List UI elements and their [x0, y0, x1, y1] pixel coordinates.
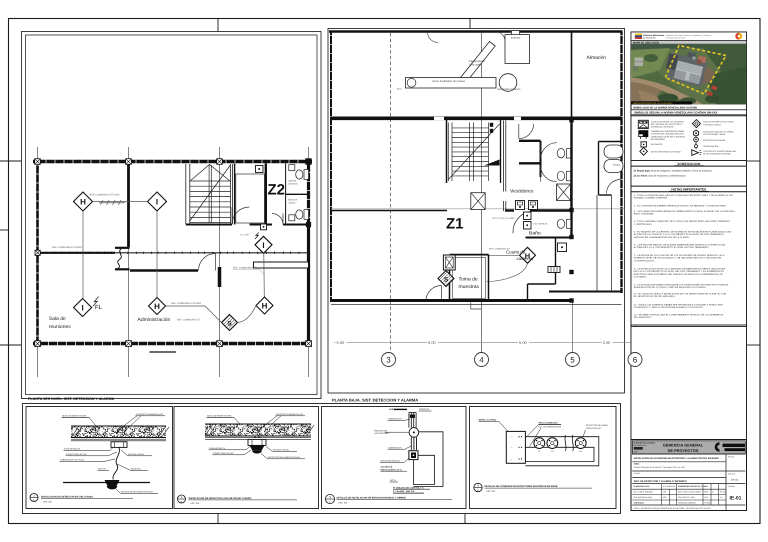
stairs mid diagonal: [448, 124, 499, 180]
svg-text:F1: F1: [538, 450, 540, 453]
svg-text:SIST. DE DETECCION Y ALARMA C/: SIST. DE DETECCION Y ALARMA C/ INCENDIO: [634, 480, 687, 483]
svg-text:LA ZONIFICACION.: LA ZONIFICACION.: [634, 259, 655, 262]
svg-text:MPPI: MPPI: [634, 451, 639, 454]
title block frame: [631, 440, 747, 511]
svg-text:DETECTOR DE HUMO: DETECTOR DE HUMO: [586, 424, 608, 427]
sym station label: [703, 130, 734, 136]
svg-text:damas: damas: [289, 201, 297, 204]
svg-text:LAMPARA DE EMERGENCIA PARA: LAMPARA DE EMERGENCIA PARA: [651, 130, 685, 133]
svg-text:Baño: Baño: [529, 231, 541, 237]
bano door arc: [513, 212, 530, 234]
svg-text:NOMBRE DEL PROYECTO / PLANO: NOMBRE DEL PROYECTO / PLANO: [678, 485, 708, 488]
svg-text:ESCALA:: ESCALA:: [728, 473, 736, 476]
shed: [633, 58, 643, 72]
grid bubble 3: [382, 353, 396, 367]
viewport inner frame: [26, 35, 318, 395]
svg-text:H: H: [154, 302, 160, 311]
column D bottom: [306, 341, 312, 347]
grid horizontal grey: [331, 208, 625, 210]
fold tick top left: [217, 18, 219, 32]
door jamb upper: [115, 247, 130, 249]
empty box: [631, 327, 747, 440]
svg-text:ALTURA DE 1.10 m CON RESPECTO: ALTURA DE 1.10 m CON RESPECTO AL NIVEL D…: [634, 246, 710, 249]
fold tick bottom right: [464, 514, 466, 524]
svg-text:11.- TODAS LAS TUBERIAS DEB: 11.- TODAS LAS TUBERIAS DEBEN SER PROTEG…: [634, 303, 724, 306]
d1 slab stipple: [71, 426, 166, 438]
svg-text:I: I: [156, 198, 158, 207]
svg-text:muestras: muestras: [459, 284, 480, 290]
bushes: [658, 94, 678, 103]
grid ext line 5: [572, 300, 574, 352]
row 4: [632, 477, 726, 479]
svg-text:Sala de: Sala de: [49, 316, 66, 322]
column B bottom: [126, 341, 132, 347]
svg-text:ESTACION MANUAL: ESTACION MANUAL: [381, 460, 402, 463]
svg-text:ALTURA DE LA PLACA DE 1.70: ALTURA DE LA PLACA DE 1.70 m CON RESPECT…: [634, 233, 725, 236]
svg-text:H: H: [262, 302, 268, 311]
grey map bar: [631, 41, 747, 45]
row 1: [632, 453, 745, 455]
wall gap door2: [514, 117, 521, 120]
dirt patch right: [692, 66, 714, 83]
svg-text:FOTOELECTRICO: FOTOELECTRICO: [703, 123, 721, 126]
svg-text:INSTALACION DE DETECTOR EN: INSTALACION DE DETECTOR EN CIELO RASO: [41, 495, 93, 498]
bath wall: [265, 164, 267, 225]
interior wall horizontal admin: [130, 269, 198, 271]
d1 slab lines: [71, 425, 166, 427]
stairs mid rails: [447, 123, 449, 182]
wall gap door1: [434, 117, 444, 120]
svg-text:3: 3: [386, 355, 391, 364]
svg-text:Ministerio del Poder Popular d: Ministerio del Poder Popular de Industri…: [666, 34, 711, 37]
svg-text:ELABORADO POR:: ELABORADO POR:: [634, 485, 651, 488]
top exterior wall: [329, 30, 623, 32]
svg-text:+ -: + -: [511, 436, 514, 439]
svg-text:PROYECTOS - MPPI: PROYECTOS - MPPI: [678, 496, 695, 499]
fold tick bottom left: [217, 514, 219, 524]
door jamb lower: [115, 268, 130, 270]
column A bottom: [35, 341, 41, 347]
notas box: [631, 192, 747, 325]
sym lamp icon: [638, 130, 648, 139]
svg-text:SIRENA CON: SIRENA CON: [374, 429, 387, 432]
svg-text:1.- TODA LA OBRA SE HARA: 1.- TODA LA OBRA SE HARA SEGUN LO INDICA…: [634, 194, 734, 197]
sym horn label: [703, 150, 736, 156]
admin counter beam: [254, 262, 309, 268]
top exterior wall: [33, 160, 312, 163]
door arc top 2: [496, 32, 505, 41]
svg-text:S: S: [444, 276, 449, 283]
horno vessel: [406, 78, 497, 89]
svg-text:GERENCIA GENERAL: GERENCIA GENERAL: [663, 442, 704, 447]
svg-text:BAJANTE...: BAJANTE...: [131, 467, 143, 470]
svg-text:DE LOS DISPOSITIVOS: DE LOS DISPOSITIVOS: [538, 425, 561, 428]
sym horn icon: [692, 150, 702, 156]
row 2: [632, 461, 726, 463]
stairs mid treads: [452, 128, 489, 176]
bottom row: [632, 504, 745, 506]
conveyor diagonal: [457, 42, 496, 88]
sym lamp label: [651, 130, 686, 141]
detector I1: [148, 192, 167, 211]
left exterior wall: [36, 161, 39, 345]
svg-text:INSTALACION DE DETECTOR LOS: INSTALACION DE DETECTOR LOSA DE TECHO O …: [189, 497, 252, 500]
vest door arc 3: [541, 166, 557, 182]
svg-text:SOBRE EL NIVEL DE PISO AC: SOBRE EL NIVEL DE PISO ACABADO Y SE UBIC…: [634, 257, 722, 260]
corridor wall left: [331, 210, 447, 212]
grid ext line 6: [634, 300, 636, 352]
svg-text:5.00: 5.00: [337, 340, 346, 345]
photo tone overlay: [631, 44, 747, 104]
fold tick right a: [747, 160, 761, 162]
interior wall vertical C segment: [218, 267, 222, 287]
svg-text:y Producción Nacional: y Producción Nacional: [666, 37, 685, 40]
bottom wall thick: [331, 299, 572, 302]
sym panel label: [651, 120, 685, 128]
svg-text:+ -: + -: [511, 458, 514, 461]
d2 pendant: [250, 445, 265, 450]
svg-text:DETECTOR DE HUMO PUNTUAL: DETECTOR DE HUMO PUNTUAL: [121, 490, 154, 493]
P box pair 2: [529, 201, 538, 210]
svg-text:UBICADO EN LA ADMINISTRACION D: UBICADO EN LA ADMINISTRACION DE LA PLANT…: [634, 236, 690, 239]
door arc corridor 2: [272, 214, 283, 225]
grid bubble 4: [475, 353, 489, 367]
details container: [23, 404, 621, 514]
detail 2 box: [174, 407, 319, 509]
mini logo text left: [634, 442, 656, 454]
svg-text:LA PLANTA.: LA PLANTA.: [634, 276, 647, 279]
grid bubble 5: [566, 353, 580, 367]
fold tick left c: [0, 344, 21, 346]
svg-text:CONECTOR EMT 3/4": CONECTOR EMT 3/4": [66, 453, 87, 456]
viewport outer frame: [22, 32, 322, 399]
svg-text:APR.: APR.: [663, 496, 668, 499]
svg-text:ESC: S/E: ESC: S/E: [43, 500, 52, 503]
grid line C: [219, 147, 221, 377]
svg-text:5: 5: [570, 355, 575, 364]
stairs right rails: [229, 164, 231, 224]
wire H1-I1: [93, 201, 148, 203]
main horizontal wall: [331, 117, 622, 121]
svg-text:NOTAS IMPORTANTES: NOTAS IMPORTANTES: [671, 188, 706, 192]
svg-text:ING. JOSE M. BRICENO: ING. JOSE M. BRICENO: [634, 491, 654, 494]
sym senal icon: [695, 145, 698, 150]
svg-text:ZONIFICACION: ZONIFICACION: [677, 162, 701, 166]
sink 2: [289, 215, 295, 221]
zonificacion band: [631, 161, 747, 167]
svg-text:P/ TABLERO DE CONTROL T-C: P/ TABLERO DE CONTROL T-C: [393, 486, 424, 489]
svg-text:ELECTRICA SERA POR MEDIO D: ELECTRICA SERA POR MEDIO DEL TABLERO DE …: [634, 273, 723, 276]
d1 leader arrows into slab: [117, 430, 126, 433]
svg-text:REF. LUMINARIA E/T: REF. LUMINARIA E/T: [177, 318, 201, 321]
svg-text:Z2 1er Nivel: Sala de reunione: Z2 1er Nivel: Sala de reuniones y admini…: [634, 175, 687, 178]
bano P stack: [524, 212, 532, 229]
sym station icon: [693, 130, 698, 136]
svg-text:ESTACION MANUAL DE DOBLE: ESTACION MANUAL DE DOBLE: [703, 130, 734, 133]
svg-text:Horno dosificador de resinas: Horno dosificador de resinas: [432, 80, 466, 83]
simbolos header band: [631, 110, 747, 115]
building complex: [663, 47, 708, 87]
room inner rect: [236, 174, 265, 223]
svg-text:DIFUSOR DE ALARMA: DIFUSOR DE ALARMA: [703, 139, 725, 142]
svg-text:DE 2.40 m CON RESPECTO AL: DE 2.40 m CON RESPECTO AL NIVEL DEL PISO…: [634, 270, 724, 273]
door arc toma: [426, 286, 442, 302]
lightning tick: [255, 233, 259, 240]
row 3: [632, 470, 726, 472]
svg-text:Gobierno Bolivariano: Gobierno Bolivariano: [643, 34, 665, 37]
svg-text:DETECTOR DE HUMO: DETECTOR DE HUMO: [492, 217, 515, 220]
svg-text:DETECTOR IONICO DE HUMO: DETECTOR IONICO DE HUMO: [651, 150, 681, 153]
toilet 1 tank: [304, 170, 309, 180]
d3 riser comb: [409, 413, 416, 428]
wall stitch ticks mid plan: [335, 116, 337, 120]
svg-text:1 / 1: 1 / 1: [720, 496, 723, 499]
svg-text:Almacén: Almacén: [587, 55, 607, 61]
conduit hatch: [99, 200, 125, 205]
svg-text:FECHA: FECHA: [705, 501, 712, 504]
d1 caption bubble: [30, 494, 38, 502]
fold tick left a: [0, 160, 21, 162]
detector S mid: [438, 271, 454, 287]
svg-text:H: H: [80, 198, 86, 207]
svg-text:DETALLE DE CONEXION DE DET: DETALLE DE CONEXION DE DETECTORES MONTAD…: [485, 485, 558, 488]
d4 caption bubble: [474, 483, 482, 492]
bath divider: [286, 193, 309, 195]
d1 conduit wavy: [113, 447, 120, 479]
svg-text:reuniones: reuniones: [49, 324, 71, 330]
svg-text:INSTALACION 1.10 m: INSTALACION 1.10 m: [381, 468, 402, 471]
svg-text:ANTENA VISUAL: ANTENA VISUAL: [128, 453, 145, 456]
svg-text:Vestidores: Vestidores: [510, 189, 534, 195]
symbols box: [631, 116, 747, 161]
detail 1 box: [26, 407, 173, 509]
mid wall thin full: [36, 252, 308, 254]
svg-text:EL RESISTOR DE FIN DE LINEA (E: EL RESISTOR DE FIN DE LINEA (EOL).: [634, 295, 676, 298]
wire jog bottom: [471, 302, 482, 309]
svg-text:CONCRETO ARMADO e=20: CONCRETO ARMADO e=20: [136, 413, 164, 416]
svg-text:Z1: Z1: [446, 216, 464, 233]
corridor double wall: [503, 121, 505, 192]
svg-text:Extrusor: Extrusor: [511, 37, 521, 40]
svg-text:Separador ciclónico: Separador ciclónico: [498, 88, 521, 91]
fold tick top right: [469, 18, 471, 29]
bath left wall: [285, 164, 287, 225]
svg-text:MAPA DE UBICACIÓN: MAPA DE UBICACIÓN: [633, 40, 659, 44]
svg-text:PLANTA BAJA. SIST. DETECCION Y: PLANTA BAJA. SIST. DETECCION Y ALARMA: [332, 398, 418, 403]
column D top: [306, 159, 312, 165]
sym panel icon: [638, 120, 648, 128]
svg-text:DEL SISTEMA DE DETECCION Y: DEL SISTEMA DE DETECCION Y: [651, 123, 683, 126]
d1 ceiling line: [63, 482, 150, 484]
room wall left of Z2: [234, 164, 236, 225]
d2 caption bubble: [178, 495, 186, 503]
tanque room: [599, 142, 622, 196]
svg-text:8.- LA INSTALACION DE DE L: 8.- LA INSTALACION DE DE LAS LAMPARAS DE…: [634, 268, 726, 271]
d3 riser 2: [411, 437, 416, 450]
P box pair 1: [516, 201, 525, 210]
svg-text:ESC.: ESC.: [705, 496, 710, 499]
central station icon: [443, 255, 455, 270]
svg-text:Administración: Administración: [138, 317, 171, 323]
wire H1 down: [82, 211, 84, 298]
svg-text:3.- LAS CANALIZACIONES SERAN D: 3.- LAS CANALIZACIONES SERAN DE TUBERIA …: [634, 210, 735, 213]
grid line B: [128, 147, 130, 377]
d1 pendant: [105, 480, 120, 486]
svg-text:Tanque: Tanque: [613, 164, 622, 167]
column D corridor: [306, 222, 311, 227]
stairs top V: [190, 165, 230, 182]
stairs door jambs: [490, 123, 493, 127]
svg-text:UBICACIÓN SATELITAL DE LA PLAN: UBICACIÓN SATELITAL DE LA PLANTA: [633, 102, 673, 105]
boundary dashed yellow: [666, 46, 727, 95]
svg-text:I: I: [81, 304, 83, 313]
svg-text:CUENTA CON UNA BATERIA CON: CUENTA CON UNA BATERIA CON: [651, 133, 684, 136]
svg-text:NORMAS COVENIN VIGENTES.: NORMAS COVENIN VIGENTES.: [634, 197, 668, 200]
svg-text:REV.: REV.: [705, 491, 709, 494]
svg-text:S: S: [227, 320, 232, 327]
fold tick left b: [0, 229, 9, 231]
interior wall vertical B upper: [127, 162, 130, 248]
svg-text:10.- EL CIRCUITO PARA LA I: 10.- EL CIRCUITO PARA LA INSTALACION DE …: [634, 292, 727, 295]
svg-text:DIB.: DIB.: [663, 491, 667, 494]
satellite photo: [631, 44, 747, 105]
door arc top 1: [428, 32, 439, 43]
detector H1: [74, 192, 93, 211]
d2 slab lines: [205, 423, 311, 425]
svg-text:5.- EL TABLERO DE LA CENTRA: 5.- EL TABLERO DE LA CENTRAL DE INCENDIO…: [634, 231, 732, 234]
sink 1: [289, 165, 295, 171]
stairs treads: [190, 181, 231, 223]
stairs mid walls: [446, 120, 448, 183]
P box right: [558, 243, 567, 252]
right exterior wall: [620, 32, 622, 294]
d2 detector box: [248, 439, 266, 445]
svg-text:DIFUSOR DE SONIDO PARA UNA: DIFUSOR DE SONIDO PARA UNA: [703, 150, 736, 153]
detail 4 box: [470, 407, 617, 509]
svg-text:12.- SE DEBE PUNTUALIZAR EL CO: 12.- SE DEBE PUNTUALIZAR EL CONECTAMIENT…: [634, 314, 724, 317]
svg-text:SEÑALIZACION: SEÑALIZACION: [703, 145, 719, 148]
svg-text:DE PROYECTOS: DE PROYECTOS: [668, 448, 699, 453]
svg-text:REV. GERENCIA GRAL.: REV. GERENCIA GRAL.: [634, 496, 654, 499]
svg-text:RECARGABLE: RECARGABLE: [651, 138, 666, 141]
zonificacion box: [631, 166, 747, 186]
svg-text:6.- LA ESTACION MANUAL DE: 6.- LA ESTACION MANUAL DE ALARMA DEBERA …: [634, 244, 726, 247]
dim line: [334, 341, 637, 343]
svg-text:DE VENEZUELA: DE VENEZUELA: [634, 444, 648, 447]
vestidores partition 2: [519, 162, 541, 164]
svg-text:I: I: [262, 241, 264, 250]
right exterior wall: [307, 160, 310, 346]
sym diamond left icon: [640, 148, 648, 156]
wall to calderas: [555, 238, 557, 285]
svg-text:helicoidal: helicoidal: [470, 63, 481, 66]
detector H mid: [520, 247, 536, 263]
svg-text:Tolva: Tolva: [397, 88, 403, 91]
svg-text:ESC: S/E: ESC: S/E: [191, 502, 200, 505]
svg-text:OBRA:: OBRA:: [634, 463, 640, 466]
svg-text:IE-01: IE-01: [730, 496, 742, 502]
tank 2: [604, 160, 623, 173]
notas band: [631, 186, 747, 192]
photo caption bar: [631, 101, 692, 104]
svg-text:4.- TODO CABLEADO SERA DEL: 4.- TODO CABLEADO SERA DEL TIPO LSZH (LO…: [634, 220, 730, 223]
grid bubble 6: [628, 353, 642, 367]
svg-text:6: 6: [633, 355, 638, 364]
round logo: [735, 33, 742, 40]
svg-text:Z2: Z2: [268, 182, 286, 199]
title block: [631, 440, 747, 511]
grid line A: [37, 147, 39, 377]
heater icon: [548, 267, 560, 273]
svg-text:+ -: + -: [511, 446, 514, 449]
svg-text:Z1 Planta baja: Área de máquin: Z1 Planta baja: Área de máquinas, Vestid…: [634, 169, 713, 173]
d4 wires loops: [525, 437, 598, 466]
sym pulsador icon: [641, 142, 646, 147]
svg-text:ALTA INTENSIDAD SONORA: ALTA INTENSIDAD SONORA: [703, 153, 731, 156]
svg-text:NIVEL INFERIOR TECHO: NIVEL INFERIOR TECHO: [62, 414, 87, 417]
svg-text:ANTENA VISUAL: ANTENA VISUAL: [273, 448, 290, 451]
shower X box: [557, 184, 571, 201]
svg-text:Planta fisiográfica de diseño,: Planta fisiográfica de diseño, Parroquia…: [634, 466, 686, 469]
door squiggle at wall B: [118, 249, 122, 269]
wire S1 to H3 curve: [238, 306, 257, 323]
svg-text:NIVEL P.: NIVEL P.: [98, 467, 107, 470]
mid toilet 2: [557, 171, 571, 181]
svg-text:calderas: calderas: [517, 256, 534, 261]
shaft lines: [596, 195, 598, 292]
svg-text:CAPACIDAD DE 90 MIN Y BATE: CAPACIDAD DE 90 MIN Y BATERIA: [651, 135, 686, 138]
stairs mid arrow: [484, 160, 500, 166]
svg-text:CONECTOR EMT 3/4": CONECTOR EMT 3/4": [213, 452, 234, 455]
svg-text:DETECTOR OPTICO DE HUMO: DETECTOR OPTICO DE HUMO: [703, 121, 734, 124]
red cars: [711, 85, 717, 90]
svg-text:REF. LUMINARIA E/TECHO: REF. LUMINARIA E/TECHO: [52, 246, 82, 249]
svg-text:lactancia: lactancia: [289, 182, 299, 185]
svg-text:PLANO:: PLANO:: [634, 472, 641, 475]
road: [631, 78, 703, 105]
grey header band: [632, 441, 745, 454]
column outer frame: [631, 32, 747, 511]
dim labels: [336, 339, 613, 345]
svg-text:CONCRETO ARMADO e=20: CONCRETO ARMADO e=20: [276, 413, 304, 416]
svg-text:Sala de: Sala de: [289, 180, 298, 183]
svg-text:s/e ind.: s/e ind.: [731, 479, 739, 482]
grid line D: [308, 147, 310, 377]
svg-text:SEÑAL AL PANEL: SEÑAL AL PANEL: [479, 419, 497, 422]
svg-text:PLANTA 1ER NIVEL. SIST. DETECC: PLANTA 1ER NIVEL. SIST. DETECCION Y ALAR…: [28, 397, 115, 401]
almacen wall: [571, 32, 573, 121]
wire I1 down: [156, 211, 158, 297]
svg-text:Y CERTIFICADO.: Y CERTIFICADO.: [634, 223, 653, 226]
d4 terminals: [511, 436, 514, 461]
sym lollipop icon: [694, 137, 699, 144]
column A mid: [35, 250, 40, 255]
d1 end hatches: [71, 426, 169, 438]
cyclone separator: [499, 74, 517, 92]
corp logo: [715, 442, 745, 452]
mid toilet 1: [557, 149, 571, 159]
extrusor box: [505, 35, 530, 64]
toma room walls: [449, 255, 451, 302]
svg-text:CAJETIN CENTRAL DE CONTROL: CAJETIN CENTRAL DE CONTROL: [651, 120, 685, 123]
wire H2 to S1: [166, 306, 222, 323]
svg-text:SERA BAJO TECHO O PLACA, COMO: SERA BAJO TECHO O PLACA, COMO SE INDICA …: [634, 286, 707, 289]
svg-text:REF. LUMINARIA E/T: REF. LUMINARIA E/T: [489, 247, 511, 250]
toilet 2 tank: [304, 210, 309, 220]
P box on top wall: [256, 166, 264, 173]
svg-text:ESC: S/E: ESC: S/E: [487, 490, 496, 493]
svg-text:GERENCIA GENERAL: GERENCIA GENERAL: [678, 501, 696, 504]
